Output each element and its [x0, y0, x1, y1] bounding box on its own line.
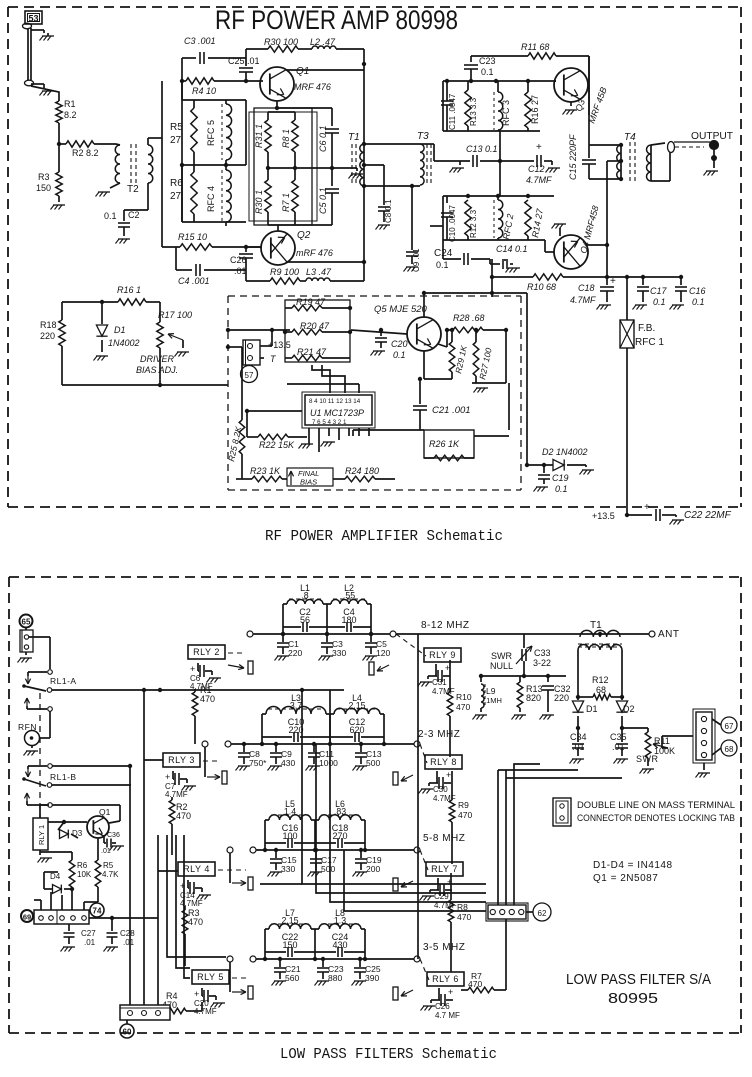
- svg-text:+: +: [165, 772, 170, 782]
- svg-text:1000: 1000: [319, 758, 338, 768]
- svg-text:220: 220: [288, 648, 302, 658]
- svg-text:0.1: 0.1: [555, 484, 568, 494]
- svg-text:C26: C26: [230, 255, 247, 265]
- svg-text:7 6 5 4 3 2 1: 7 6 5 4 3 2 1: [312, 419, 347, 426]
- svg-text:R30 1: R30 1: [254, 190, 264, 214]
- svg-text:RFC 5: RFC 5: [206, 120, 216, 146]
- svg-text:C16: C16: [689, 286, 706, 296]
- svg-text:ANT: ANT: [658, 629, 680, 640]
- svg-text:120: 120: [376, 648, 390, 658]
- svg-text:R31 1: R31 1: [254, 124, 264, 148]
- svg-text:C36: C36: [107, 832, 120, 839]
- svg-text:RF POWER AMP 80998: RF POWER AMP 80998: [215, 5, 458, 35]
- svg-text:4.7MF: 4.7MF: [432, 687, 455, 696]
- svg-text:74: 74: [93, 907, 102, 916]
- svg-text:500: 500: [321, 864, 335, 874]
- svg-text:R20 47: R20 47: [300, 321, 330, 331]
- svg-text:430: 430: [281, 758, 295, 768]
- svg-text:R9: R9: [458, 800, 469, 810]
- svg-text:R13 3.3: R13 3.3: [469, 97, 478, 126]
- svg-text:LOW PASS FILTER S/A: LOW PASS FILTER S/A: [566, 971, 711, 988]
- svg-text:C21 .001: C21 .001: [432, 405, 471, 416]
- svg-text:.55: .55: [343, 591, 355, 601]
- svg-text:150: 150: [282, 940, 297, 950]
- svg-text:470: 470: [200, 694, 215, 704]
- svg-text:RLY 8: RLY 8: [430, 757, 457, 767]
- svg-text:R24 180: R24 180: [345, 466, 379, 476]
- svg-text:4.7K: 4.7K: [102, 870, 119, 879]
- svg-text:T3: T3: [417, 131, 429, 142]
- svg-text:R30 100: R30 100: [264, 37, 298, 47]
- svg-text:R23 1K: R23 1K: [250, 466, 281, 476]
- svg-text:R11 68: R11 68: [521, 42, 549, 52]
- svg-text:C22 22MF: C22 22MF: [684, 510, 732, 521]
- svg-text:+: +: [194, 989, 199, 999]
- svg-text:DRIVER: DRIVER: [140, 354, 175, 364]
- svg-text:53: 53: [28, 14, 38, 24]
- svg-text:RLY 5: RLY 5: [197, 972, 224, 982]
- svg-text:100: 100: [282, 831, 297, 841]
- svg-text:D2 1N4002: D2 1N4002: [542, 447, 588, 457]
- svg-text:150: 150: [36, 183, 51, 193]
- svg-text:D1: D1: [586, 704, 598, 714]
- svg-text:Q1 = 2N5087: Q1 = 2N5087: [593, 873, 658, 884]
- svg-text:180: 180: [341, 615, 356, 625]
- svg-text:65: 65: [22, 618, 31, 627]
- svg-text:C25 .01: C25 .01: [228, 56, 260, 66]
- svg-text:3.7: 3.7: [290, 701, 302, 711]
- svg-text:R1: R1: [64, 99, 76, 109]
- svg-text:R28 .68: R28 .68: [453, 313, 485, 323]
- svg-text:430: 430: [332, 940, 347, 950]
- svg-text:1N4002: 1N4002: [108, 338, 140, 348]
- svg-text:MRF 476: MRF 476: [294, 82, 331, 92]
- svg-text:NULL: NULL: [490, 661, 513, 671]
- svg-text:500: 500: [366, 758, 380, 768]
- svg-text:470: 470: [457, 912, 471, 922]
- svg-text:R7 1: R7 1: [281, 193, 291, 212]
- svg-text:R21 47: R21 47: [297, 347, 327, 357]
- svg-text:4.7MF: 4.7MF: [570, 295, 596, 305]
- svg-text:+: +: [644, 502, 650, 513]
- svg-text:0.1: 0.1: [692, 297, 705, 307]
- svg-text:.01: .01: [84, 938, 96, 947]
- svg-text:8 4 10 11 12 13 14: 8 4 10 11 12 13 14: [309, 398, 361, 405]
- svg-text:.1MH: .1MH: [484, 696, 502, 705]
- svg-text:.01: .01: [123, 938, 135, 947]
- svg-text:RLY 1: RLY 1: [37, 825, 46, 845]
- svg-text:2-3 MHZ: 2-3 MHZ: [418, 729, 460, 740]
- svg-text:U1 MC1723P: U1 MC1723P: [310, 408, 364, 418]
- svg-text:5-8 MHZ: 5-8 MHZ: [423, 833, 465, 844]
- svg-text:750*: 750*: [249, 758, 267, 768]
- svg-text:470: 470: [456, 702, 470, 712]
- svg-text:470: 470: [176, 811, 191, 821]
- svg-text:10K: 10K: [77, 870, 92, 879]
- svg-text:0.1: 0.1: [104, 211, 117, 221]
- svg-text:BIAS ADJ.: BIAS ADJ.: [136, 365, 178, 375]
- svg-text:.01: .01: [234, 266, 247, 276]
- svg-text:330: 330: [281, 864, 295, 874]
- svg-text:80995: 80995: [608, 990, 658, 1007]
- svg-text:C2: C2: [128, 210, 140, 220]
- svg-text:R10 68: R10 68: [527, 282, 556, 292]
- svg-text:RLY 4: RLY 4: [183, 864, 210, 874]
- svg-text:.01: .01: [101, 848, 111, 855]
- svg-text:4.7MF: 4.7MF: [165, 790, 188, 799]
- svg-text:C33: C33: [534, 648, 551, 658]
- svg-text:Q2: Q2: [297, 230, 311, 241]
- svg-text:560: 560: [285, 973, 299, 983]
- svg-text:mRF 476: mRF 476: [296, 248, 333, 258]
- svg-text:C9 .01: C9 .01: [412, 248, 421, 272]
- svg-text:4.7 MF: 4.7 MF: [435, 1011, 460, 1020]
- svg-text:0.1: 0.1: [393, 350, 406, 360]
- svg-text:R5: R5: [103, 861, 114, 870]
- svg-text:RL1-A: RL1-A: [50, 676, 77, 686]
- svg-text:D4: D4: [50, 872, 61, 881]
- svg-text:R6: R6: [77, 861, 88, 870]
- svg-text:R17 100: R17 100: [158, 310, 192, 320]
- svg-text:C6 0.1: C6 0.1: [318, 125, 328, 152]
- svg-text:3-5 MHZ: 3-5 MHZ: [423, 942, 465, 953]
- svg-text:330: 330: [332, 648, 346, 658]
- svg-text:C31: C31: [432, 678, 447, 687]
- svg-text:T4: T4: [624, 132, 636, 143]
- svg-text:RLY 2: RLY 2: [193, 647, 220, 657]
- svg-text:1.4: 1.4: [284, 807, 296, 817]
- svg-text:R15 10: R15 10: [178, 232, 207, 242]
- svg-text:C3 .001: C3 .001: [184, 36, 216, 46]
- svg-text:+: +: [446, 770, 451, 780]
- svg-text:C19: C19: [552, 473, 569, 483]
- svg-text:C20: C20: [391, 339, 408, 349]
- svg-text:OUTPUT: OUTPUT: [691, 131, 733, 142]
- svg-text:C10 .0047: C10 .0047: [448, 205, 457, 242]
- svg-text:+: +: [610, 276, 616, 287]
- svg-text:SWR: SWR: [491, 651, 512, 661]
- svg-text:C5 0.1: C5 0.1: [318, 187, 328, 214]
- svg-text:R8 1: R8 1: [281, 129, 291, 148]
- svg-text:+13.5: +13.5: [592, 511, 615, 521]
- svg-text:R10: R10: [456, 692, 472, 702]
- svg-text:C12: C12: [528, 164, 545, 174]
- svg-text:C13 0.1: C13 0.1: [466, 144, 498, 154]
- svg-text:T1: T1: [590, 620, 602, 631]
- svg-text:C27: C27: [81, 929, 96, 938]
- svg-text:R5: R5: [170, 122, 183, 133]
- svg-text:L3 .47: L3 .47: [306, 267, 332, 277]
- svg-text:0.1: 0.1: [436, 260, 449, 270]
- svg-text:880: 880: [328, 973, 342, 983]
- svg-text:69: 69: [23, 913, 31, 922]
- svg-text:R9 100: R9 100: [270, 267, 299, 277]
- svg-text:Q1: Q1: [296, 66, 309, 77]
- svg-text:R16 27: R16 27: [530, 95, 540, 124]
- svg-text:F.B.: F.B.: [638, 323, 655, 334]
- svg-text:2.15: 2.15: [281, 916, 298, 926]
- svg-text:470: 470: [188, 917, 203, 927]
- svg-text:LOW PASS FILTERS Schematic: LOW PASS FILTERS Schematic: [280, 1047, 497, 1063]
- svg-text:56: 56: [300, 615, 310, 625]
- svg-text:.8: .8: [301, 591, 308, 601]
- svg-text:D3: D3: [72, 829, 83, 838]
- svg-text:SWR: SWR: [636, 754, 659, 764]
- svg-text:R18: R18: [40, 320, 57, 330]
- svg-text:R16 1: R16 1: [117, 285, 141, 295]
- svg-text:R12 3.3: R12 3.3: [469, 209, 478, 238]
- svg-text:+: +: [190, 664, 195, 674]
- svg-text:+: +: [448, 987, 453, 997]
- svg-text:RFC 4: RFC 4: [206, 186, 216, 212]
- svg-text:RLY 7: RLY 7: [431, 864, 458, 874]
- svg-text:D1: D1: [114, 325, 126, 335]
- svg-text:820: 820: [526, 693, 541, 703]
- svg-text:60: 60: [123, 1028, 132, 1037]
- svg-text:2.15: 2.15: [348, 701, 365, 711]
- svg-text:C18: C18: [578, 283, 595, 293]
- svg-text:C11 .0047: C11 .0047: [448, 93, 457, 130]
- svg-text:67: 67: [725, 722, 734, 731]
- svg-text:R19 47: R19 47: [296, 297, 326, 307]
- svg-text:220: 220: [40, 331, 55, 341]
- svg-text:0.1: 0.1: [481, 67, 494, 77]
- svg-text:8.2: 8.2: [64, 110, 77, 120]
- svg-text:C23: C23: [479, 56, 496, 66]
- svg-text:270: 270: [332, 831, 347, 841]
- svg-text:62: 62: [538, 909, 547, 918]
- svg-text:Q5 MJE 520: Q5 MJE 520: [374, 304, 428, 315]
- svg-text:R12: R12: [592, 675, 609, 685]
- svg-text:R26 1K: R26 1K: [429, 439, 460, 449]
- svg-text:RLY 9: RLY 9: [429, 650, 456, 660]
- svg-text:200: 200: [366, 864, 380, 874]
- svg-text:1.3: 1.3: [334, 916, 346, 926]
- svg-text:C15 220PF: C15 220PF: [568, 134, 578, 180]
- svg-text:390: 390: [365, 973, 379, 983]
- svg-text:C30: C30: [433, 785, 448, 794]
- svg-text:68: 68: [596, 685, 606, 695]
- svg-text:RL1-B: RL1-B: [50, 772, 77, 782]
- svg-text:C4 .001: C4 .001: [178, 276, 210, 286]
- svg-text:R22 15K: R22 15K: [259, 440, 295, 450]
- svg-text:L9: L9: [486, 686, 496, 696]
- svg-text:3-22: 3-22: [533, 658, 551, 668]
- svg-text:R4 10: R4 10: [192, 86, 216, 96]
- svg-text:C28: C28: [120, 929, 135, 938]
- svg-text:4.7MF: 4.7MF: [526, 175, 552, 185]
- svg-text:D1-D4 = IN4148: D1-D4 = IN4148: [593, 860, 673, 871]
- svg-text:27: 27: [170, 135, 182, 146]
- svg-text:RF POWER AMPLIFIER Schematic: RF POWER AMPLIFIER Schematic: [265, 529, 503, 545]
- svg-text:620: 620: [349, 725, 364, 735]
- svg-text:T1: T1: [348, 132, 360, 143]
- svg-text:+: +: [536, 142, 542, 153]
- svg-text:DOUBLE LINE ON MASS TERMINAL: DOUBLE LINE ON MASS TERMINAL: [577, 800, 735, 811]
- svg-text:C8 0.1: C8 0.1: [384, 199, 393, 223]
- svg-text:RFC 3: RFC 3: [501, 100, 511, 126]
- svg-text:68: 68: [725, 745, 734, 754]
- svg-text:RFC 1: RFC 1: [635, 337, 664, 348]
- svg-text:BIAS: BIAS: [300, 478, 317, 487]
- svg-text:0.1: 0.1: [653, 297, 666, 307]
- svg-text:27: 27: [170, 191, 182, 202]
- svg-text:57: 57: [245, 371, 254, 380]
- svg-text:C17: C17: [650, 286, 668, 296]
- svg-text:.83: .83: [334, 807, 346, 817]
- svg-text:C14 0.1: C14 0.1: [496, 244, 528, 254]
- svg-text:470: 470: [458, 810, 472, 820]
- svg-text:R2 8.2: R2 8.2: [72, 148, 99, 158]
- svg-text:8-12 MHZ: 8-12 MHZ: [421, 620, 469, 631]
- svg-text:RLY 3: RLY 3: [168, 755, 195, 765]
- svg-text:CONNECTOR DENOTES LOCKING TAB: CONNECTOR DENOTES LOCKING TAB: [577, 813, 735, 824]
- svg-text:T2: T2: [127, 184, 139, 195]
- svg-text:R3: R3: [38, 172, 50, 182]
- svg-text:C26: C26: [435, 1002, 450, 1011]
- svg-text:C35: C35: [610, 732, 627, 742]
- svg-text:RLY 6: RLY 6: [432, 974, 459, 984]
- svg-text:220: 220: [554, 693, 569, 703]
